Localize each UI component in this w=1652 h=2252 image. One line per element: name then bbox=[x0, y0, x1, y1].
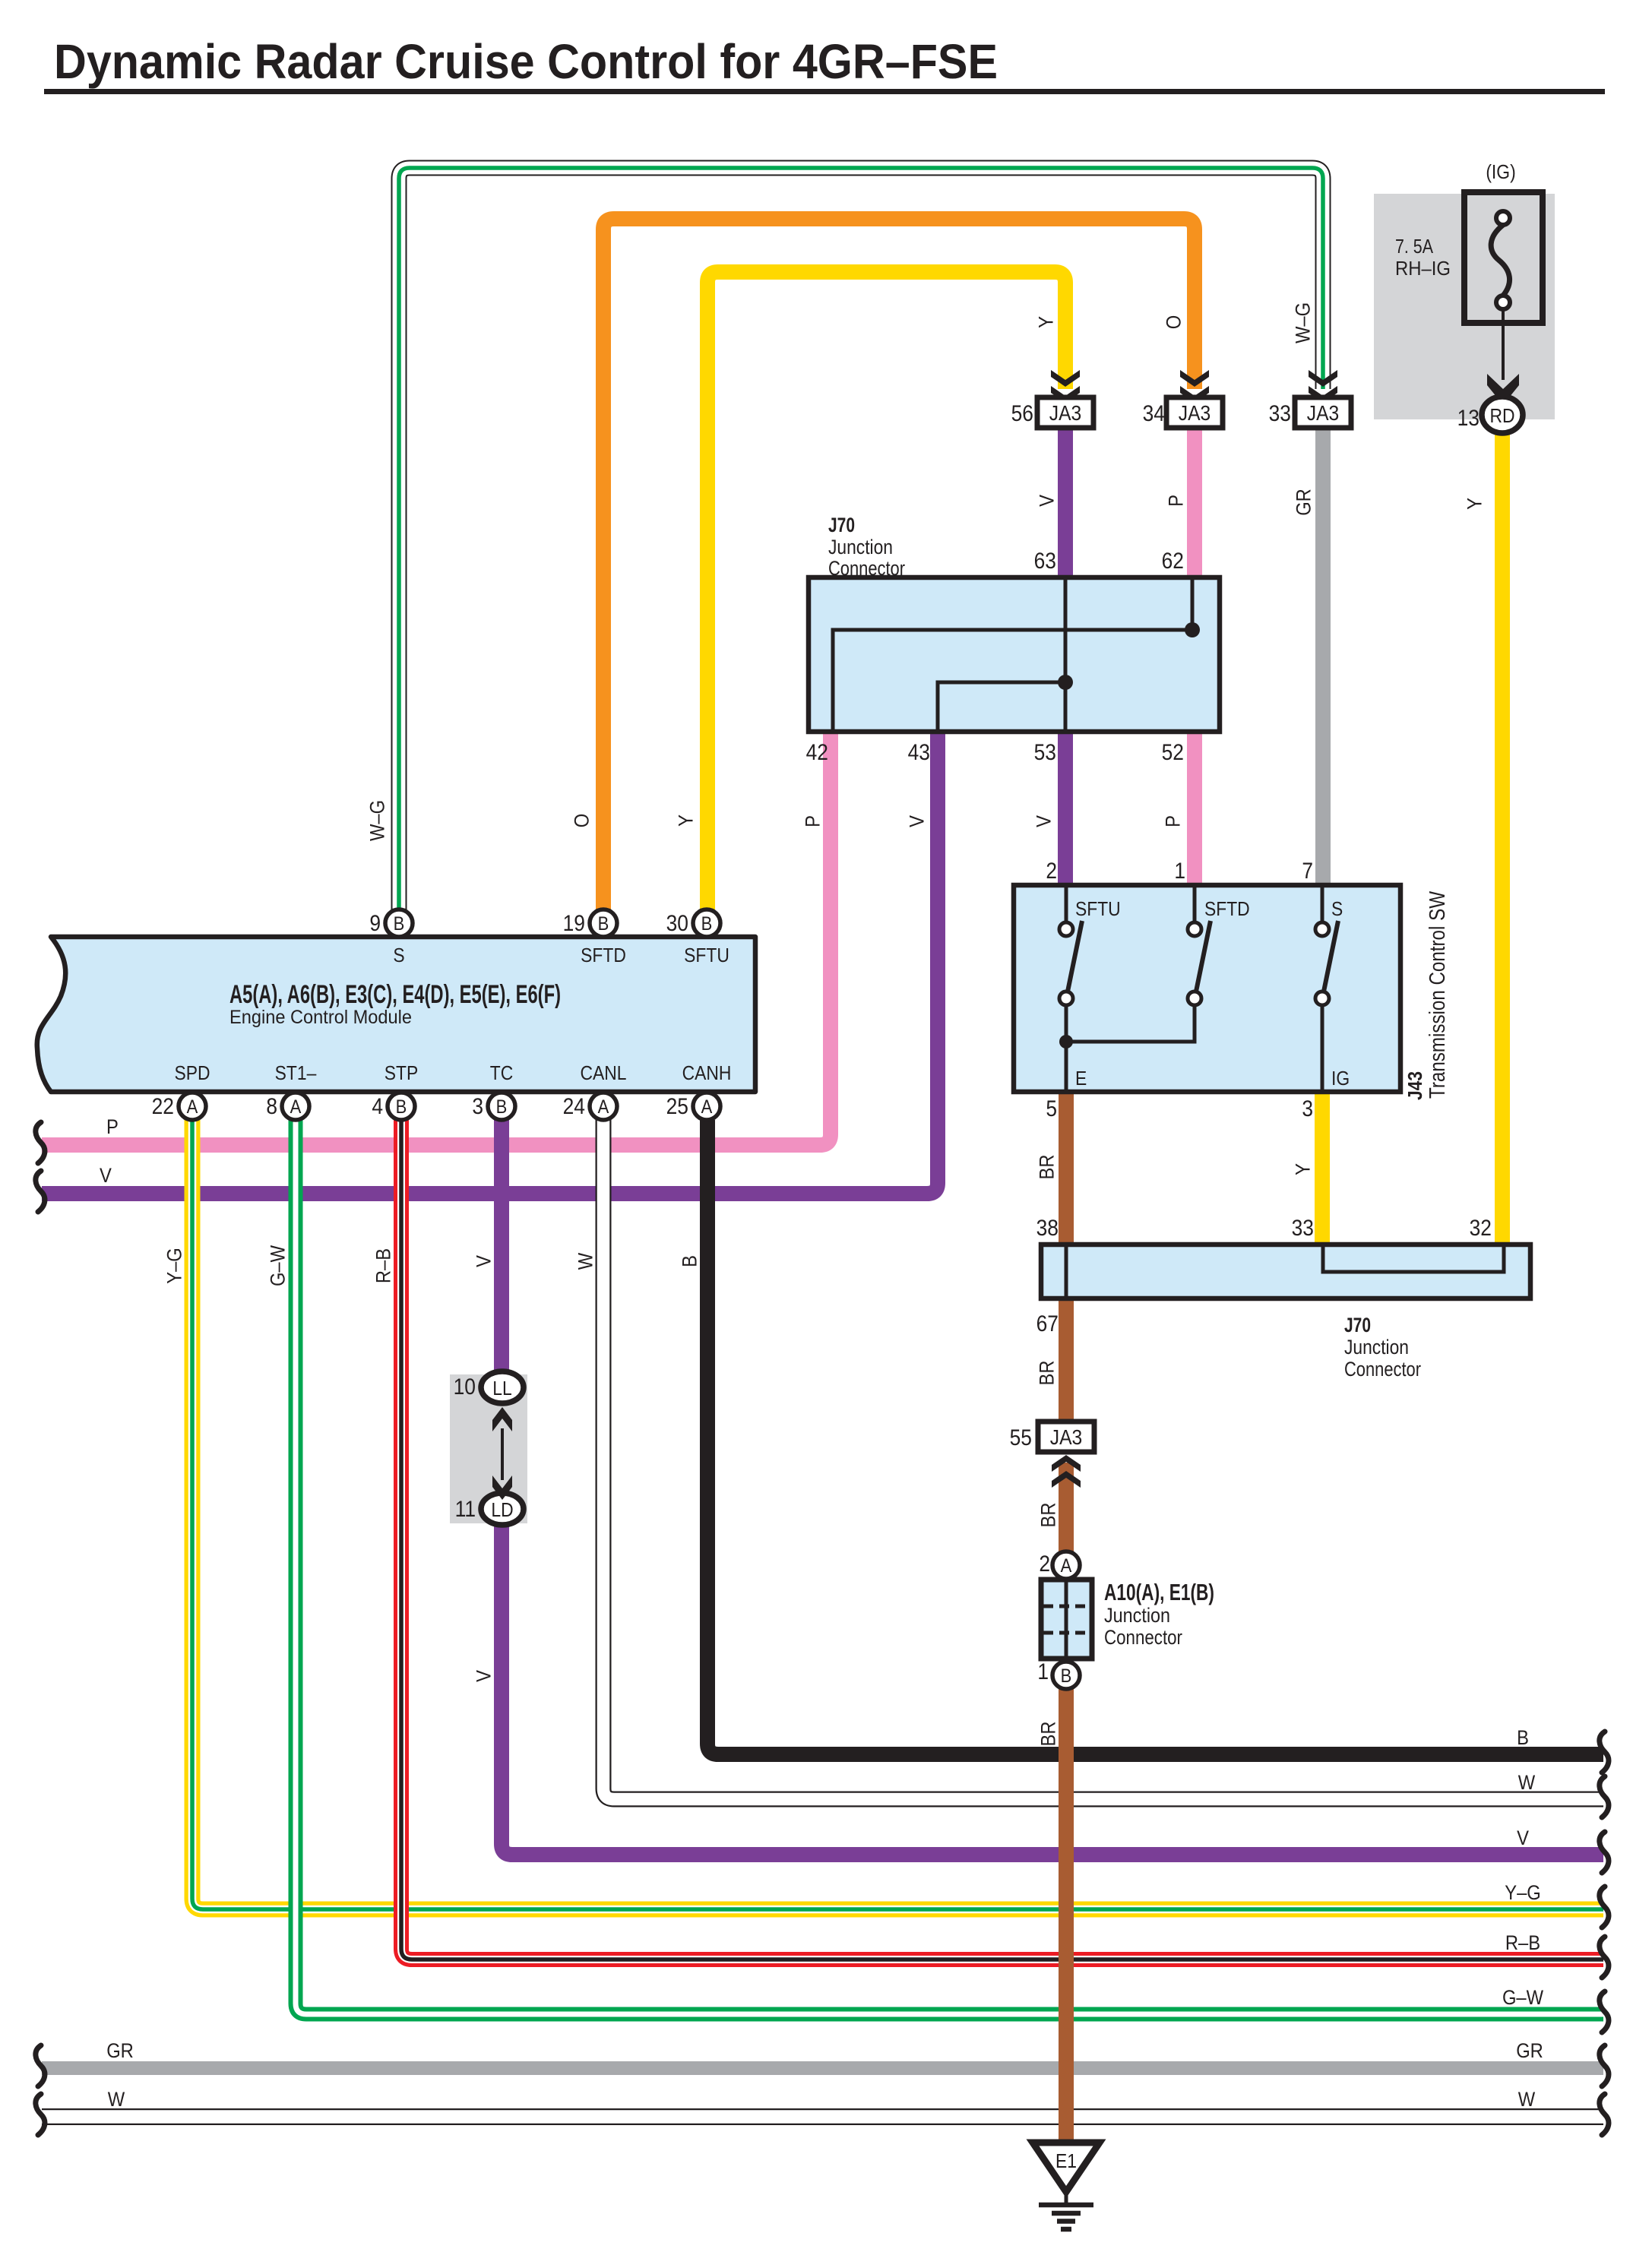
svg-text:B: B bbox=[394, 913, 405, 935]
svg-text:V: V bbox=[1033, 815, 1055, 827]
svg-text:JA3: JA3 bbox=[1307, 401, 1339, 425]
svg-text:8: 8 bbox=[266, 1093, 277, 1118]
svg-text:RD: RD bbox=[1489, 406, 1514, 428]
svg-text:A: A bbox=[1061, 1555, 1072, 1577]
svg-text:R–B: R–B bbox=[1505, 1932, 1540, 1955]
svg-text:IG: IG bbox=[1331, 1068, 1350, 1090]
svg-text:13: 13 bbox=[1457, 404, 1480, 430]
svg-text:25: 25 bbox=[666, 1093, 688, 1118]
svg-text:7: 7 bbox=[1302, 857, 1313, 883]
svg-text:19: 19 bbox=[563, 909, 585, 935]
svg-text:V: V bbox=[1517, 1827, 1529, 1850]
svg-text:9: 9 bbox=[369, 909, 381, 935]
svg-text:SPD: SPD bbox=[174, 1063, 210, 1085]
svg-text:V: V bbox=[906, 815, 929, 827]
svg-text:2: 2 bbox=[1039, 1550, 1050, 1576]
svg-text:SFTU: SFTU bbox=[1075, 899, 1121, 921]
svg-text:B: B bbox=[598, 913, 609, 935]
svg-text:67: 67 bbox=[1036, 1310, 1059, 1336]
svg-text:1: 1 bbox=[1037, 1658, 1049, 1684]
svg-text:LL: LL bbox=[492, 1378, 511, 1400]
svg-text:A: A bbox=[187, 1096, 198, 1118]
svg-text:SFTD: SFTD bbox=[581, 945, 626, 967]
svg-text:Engine Control Module: Engine Control Module bbox=[229, 1007, 412, 1028]
svg-text:Junction: Junction bbox=[1344, 1336, 1409, 1358]
svg-text:G–W: G–W bbox=[267, 1245, 290, 1286]
svg-text:W–G: W–G bbox=[366, 800, 389, 841]
svg-text:Junction: Junction bbox=[828, 536, 893, 558]
svg-text:Y: Y bbox=[675, 814, 698, 827]
svg-text:B: B bbox=[701, 913, 713, 935]
svg-text:BR: BR bbox=[1036, 1360, 1059, 1385]
svg-text:1: 1 bbox=[1174, 857, 1185, 883]
svg-text:A: A bbox=[701, 1096, 713, 1118]
svg-text:E1: E1 bbox=[1055, 2151, 1077, 2173]
svg-text:W–G: W–G bbox=[1292, 302, 1315, 343]
svg-text:3: 3 bbox=[472, 1093, 483, 1118]
svg-text:GR: GR bbox=[1516, 2040, 1543, 2063]
svg-text:JA3: JA3 bbox=[1179, 401, 1211, 425]
svg-text:7. 5A: 7. 5A bbox=[1395, 235, 1434, 258]
svg-text:42: 42 bbox=[806, 739, 828, 764]
svg-text:22: 22 bbox=[152, 1093, 174, 1118]
svg-text:STP: STP bbox=[385, 1063, 418, 1085]
svg-text:W: W bbox=[108, 2089, 125, 2111]
svg-text:JA3: JA3 bbox=[1050, 1425, 1082, 1450]
svg-text:4: 4 bbox=[372, 1093, 383, 1118]
svg-text:GR: GR bbox=[106, 2040, 134, 2063]
svg-text:CANL: CANL bbox=[581, 1063, 627, 1085]
svg-text:R–B: R–B bbox=[372, 1248, 395, 1283]
svg-text:P: P bbox=[1165, 495, 1188, 507]
svg-text:Transmission Control SW: Transmission Control SW bbox=[1426, 890, 1450, 1099]
svg-text:SFTD: SFTD bbox=[1204, 899, 1250, 921]
svg-text:32: 32 bbox=[1470, 1214, 1492, 1240]
svg-text:CANH: CANH bbox=[682, 1063, 732, 1085]
svg-text:Connector: Connector bbox=[1104, 1626, 1182, 1649]
svg-text:V: V bbox=[1036, 495, 1059, 507]
svg-text:30: 30 bbox=[666, 909, 688, 935]
svg-text:52: 52 bbox=[1162, 739, 1184, 764]
svg-text:G–W: G–W bbox=[1502, 1987, 1543, 2010]
svg-text:56: 56 bbox=[1011, 400, 1033, 425]
svg-text:W: W bbox=[574, 1253, 597, 1270]
svg-text:W: W bbox=[1518, 1772, 1535, 1795]
svg-text:Y: Y bbox=[1292, 1163, 1315, 1175]
svg-text:JA3: JA3 bbox=[1049, 401, 1081, 425]
svg-text:LD: LD bbox=[491, 1500, 513, 1522]
svg-text:38: 38 bbox=[1036, 1214, 1059, 1240]
svg-text:J70: J70 bbox=[828, 514, 855, 536]
svg-text:33: 33 bbox=[1292, 1214, 1314, 1240]
svg-text:BR: BR bbox=[1037, 1502, 1060, 1527]
svg-text:RH–IG: RH–IG bbox=[1395, 257, 1451, 280]
svg-text:10: 10 bbox=[454, 1373, 476, 1399]
svg-text:53: 53 bbox=[1034, 739, 1056, 764]
svg-text:B: B bbox=[1061, 1665, 1072, 1687]
svg-text:Connector: Connector bbox=[828, 557, 905, 580]
svg-text:Y: Y bbox=[1464, 498, 1486, 510]
svg-text:63: 63 bbox=[1034, 547, 1056, 573]
svg-text:B: B bbox=[396, 1096, 407, 1118]
svg-text:5: 5 bbox=[1046, 1095, 1057, 1121]
svg-text:A: A bbox=[598, 1096, 609, 1118]
svg-text:P: P bbox=[1162, 815, 1185, 827]
svg-text:B: B bbox=[679, 1255, 701, 1267]
svg-text:33: 33 bbox=[1269, 400, 1291, 425]
svg-text:3: 3 bbox=[1302, 1095, 1313, 1121]
svg-text:P: P bbox=[802, 815, 824, 827]
svg-text:W: W bbox=[1518, 2089, 1535, 2111]
svg-text:BR: BR bbox=[1036, 1154, 1059, 1179]
svg-text:GR: GR bbox=[1293, 489, 1315, 516]
svg-text:24: 24 bbox=[563, 1093, 585, 1118]
svg-text:Connector: Connector bbox=[1344, 1358, 1421, 1381]
svg-text:A: A bbox=[290, 1096, 302, 1118]
svg-text:E: E bbox=[1075, 1068, 1087, 1090]
svg-text:A10(A), E1(B): A10(A), E1(B) bbox=[1104, 1579, 1214, 1605]
svg-text:V: V bbox=[473, 1670, 495, 1682]
svg-text:11: 11 bbox=[455, 1495, 476, 1521]
svg-text:J70: J70 bbox=[1344, 1314, 1371, 1336]
svg-text:55: 55 bbox=[1010, 1424, 1032, 1450]
svg-text:V: V bbox=[100, 1165, 112, 1188]
svg-text:62: 62 bbox=[1162, 547, 1184, 573]
svg-text:B: B bbox=[496, 1096, 508, 1118]
svg-text:43: 43 bbox=[908, 739, 930, 764]
svg-text:J43: J43 bbox=[1404, 1071, 1426, 1100]
svg-text:O: O bbox=[571, 814, 593, 827]
svg-text:P: P bbox=[106, 1116, 119, 1139]
svg-text:BR: BR bbox=[1037, 1721, 1060, 1746]
svg-text:B: B bbox=[1517, 1727, 1529, 1750]
svg-text:ST1–: ST1– bbox=[275, 1063, 317, 1085]
svg-text:(IG): (IG) bbox=[1486, 162, 1515, 184]
svg-text:Junction: Junction bbox=[1104, 1604, 1170, 1627]
svg-text:O: O bbox=[1163, 315, 1185, 329]
svg-text:34: 34 bbox=[1143, 400, 1165, 425]
svg-text:A5(A), A6(B), E3(C), E4(D), E5: A5(A), A6(B), E3(C), E4(D), E5(E), E6(F) bbox=[229, 980, 561, 1009]
svg-text:Y: Y bbox=[1035, 316, 1058, 328]
svg-text:TC: TC bbox=[490, 1063, 513, 1085]
svg-text:Y–G: Y–G bbox=[1505, 1882, 1541, 1905]
svg-text:V: V bbox=[473, 1255, 495, 1267]
svg-text:2: 2 bbox=[1046, 857, 1057, 883]
svg-text:S: S bbox=[393, 945, 404, 967]
svg-text:SFTU: SFTU bbox=[684, 945, 729, 967]
svg-text:Dynamic Radar Cruise Control f: Dynamic Radar Cruise Control for 4GR–FSE bbox=[54, 34, 998, 89]
svg-text:S: S bbox=[1331, 899, 1343, 921]
svg-text:Y–G: Y–G bbox=[163, 1248, 186, 1284]
